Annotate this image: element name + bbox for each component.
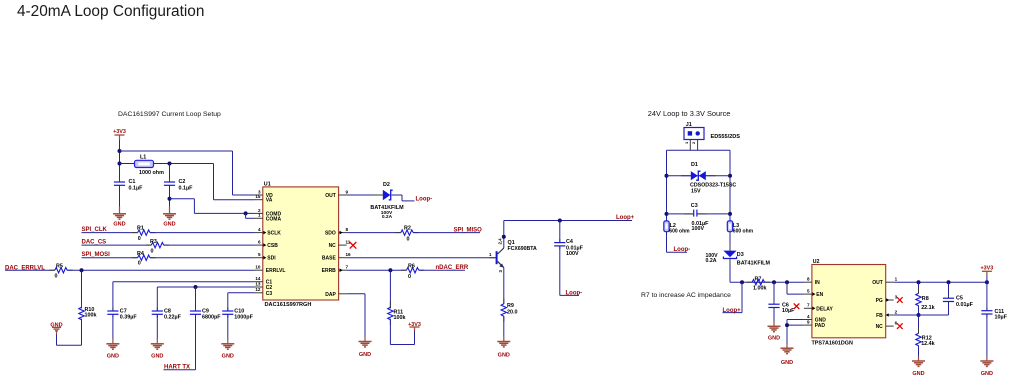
svg-text:22.1k: 22.1k bbox=[921, 305, 935, 311]
svg-text:C3: C3 bbox=[691, 203, 698, 209]
svg-text:BASE: BASE bbox=[322, 256, 337, 262]
svg-text:GND: GND bbox=[781, 360, 793, 366]
svg-text:12: 12 bbox=[255, 287, 261, 292]
svg-text:CSB: CSB bbox=[267, 243, 278, 249]
svg-text:0.2A: 0.2A bbox=[706, 258, 717, 264]
svg-text:C7: C7 bbox=[120, 308, 127, 314]
svg-text:R1: R1 bbox=[137, 226, 144, 232]
svg-text:VA: VA bbox=[266, 198, 273, 204]
svg-text:24V Loop to 3.3V Source: 24V Loop to 3.3V Source bbox=[648, 109, 731, 118]
svg-text:SDO: SDO bbox=[325, 231, 336, 237]
svg-text:14: 14 bbox=[255, 276, 261, 281]
svg-text:0.1µF: 0.1µF bbox=[179, 186, 194, 192]
svg-text:Loop+: Loop+ bbox=[616, 215, 635, 221]
svg-text:6: 6 bbox=[258, 240, 261, 245]
svg-text:+3V3: +3V3 bbox=[113, 129, 126, 135]
svg-text:L1: L1 bbox=[140, 155, 146, 161]
svg-text:R2: R2 bbox=[404, 226, 411, 232]
svg-text:600 ohm: 600 ohm bbox=[733, 228, 754, 234]
svg-text:GND: GND bbox=[912, 371, 924, 377]
svg-text:6800pF: 6800pF bbox=[202, 315, 221, 321]
svg-text:C2: C2 bbox=[179, 179, 186, 185]
svg-text:D3: D3 bbox=[737, 252, 744, 258]
svg-text:FB: FB bbox=[876, 313, 883, 319]
svg-text:0.2A: 0.2A bbox=[382, 214, 393, 220]
svg-text:0.01µF: 0.01µF bbox=[956, 302, 974, 308]
svg-text:NC: NC bbox=[329, 243, 337, 249]
svg-text:GND: GND bbox=[163, 221, 175, 227]
svg-text:100k: 100k bbox=[85, 313, 97, 319]
svg-text:1.00k: 1.00k bbox=[753, 286, 767, 292]
svg-text:100V: 100V bbox=[566, 251, 579, 257]
svg-text:GND: GND bbox=[107, 354, 119, 360]
svg-text:OUT: OUT bbox=[872, 280, 883, 286]
svg-text:U1: U1 bbox=[264, 182, 271, 188]
svg-text:ERRB: ERRB bbox=[322, 268, 337, 274]
svg-text:DAC161S997 Current Loop Setup: DAC161S997 Current Loop Setup bbox=[118, 111, 221, 118]
svg-text:10µF: 10µF bbox=[995, 314, 1008, 320]
svg-text:IN: IN bbox=[815, 280, 820, 286]
svg-text:FCX690BTA: FCX690BTA bbox=[508, 246, 538, 252]
svg-text:100V: 100V bbox=[692, 226, 705, 232]
svg-text:OUT: OUT bbox=[325, 193, 336, 199]
svg-text:ED555/2DS: ED555/2DS bbox=[711, 134, 741, 140]
svg-text:4-20mA Loop Configuration: 4-20mA Loop Configuration bbox=[17, 3, 204, 20]
svg-text:R9: R9 bbox=[507, 303, 514, 309]
svg-text:C9: C9 bbox=[202, 308, 209, 314]
svg-text:Loop+: Loop+ bbox=[723, 308, 742, 314]
svg-text:9: 9 bbox=[346, 189, 349, 194]
svg-text:8: 8 bbox=[807, 277, 810, 282]
svg-text:15V: 15V bbox=[691, 189, 701, 195]
svg-text:GND: GND bbox=[151, 354, 163, 360]
svg-text:5: 5 bbox=[807, 289, 810, 294]
svg-text:10µF: 10µF bbox=[782, 308, 795, 314]
svg-text:1000pF: 1000pF bbox=[234, 315, 253, 321]
svg-text:15: 15 bbox=[255, 194, 261, 199]
svg-text:R5: R5 bbox=[56, 263, 63, 269]
svg-text:EN: EN bbox=[816, 292, 823, 298]
svg-text:J1: J1 bbox=[686, 122, 692, 128]
svg-text:Loop-: Loop- bbox=[674, 247, 691, 253]
svg-text:8: 8 bbox=[346, 227, 349, 232]
svg-text:Loop-: Loop- bbox=[566, 291, 583, 297]
svg-text:12.4k: 12.4k bbox=[921, 341, 935, 347]
svg-text:GND: GND bbox=[113, 221, 125, 227]
svg-text:PG: PG bbox=[876, 298, 883, 304]
svg-text:R7 to increase AC impedance: R7 to increase AC impedance bbox=[641, 292, 731, 299]
svg-text:nDAC_ERR: nDAC_ERR bbox=[436, 265, 469, 271]
svg-text:0: 0 bbox=[407, 236, 410, 242]
svg-text:DAP: DAP bbox=[325, 292, 336, 298]
svg-text:Loop-: Loop- bbox=[416, 196, 433, 202]
svg-text:C1: C1 bbox=[129, 179, 136, 185]
svg-text:20.0: 20.0 bbox=[507, 309, 518, 315]
svg-text:0: 0 bbox=[408, 274, 411, 280]
svg-text:13: 13 bbox=[255, 281, 261, 286]
svg-text:R8: R8 bbox=[922, 296, 929, 302]
svg-text:C10: C10 bbox=[234, 308, 244, 314]
svg-text:NC: NC bbox=[876, 324, 884, 330]
svg-text:0.39µF: 0.39µF bbox=[120, 315, 138, 321]
svg-text:9: 9 bbox=[807, 320, 810, 325]
svg-text:1: 1 bbox=[895, 277, 898, 282]
svg-text:CDSOD323-T15SC: CDSOD323-T15SC bbox=[690, 183, 736, 189]
svg-text:1: 1 bbox=[258, 213, 261, 218]
svg-text:7: 7 bbox=[807, 303, 810, 308]
svg-text:SPI_MISO: SPI_MISO bbox=[454, 227, 483, 233]
svg-text:DAC161S997RGH: DAC161S997RGH bbox=[265, 302, 312, 308]
svg-text:SCLK: SCLK bbox=[267, 231, 281, 237]
svg-text:2: 2 bbox=[895, 309, 898, 314]
svg-text:0: 0 bbox=[138, 236, 141, 242]
svg-text:GND: GND bbox=[981, 371, 993, 377]
svg-text:10: 10 bbox=[255, 265, 261, 270]
svg-text:0.1µF: 0.1µF bbox=[129, 186, 144, 192]
svg-text:6: 6 bbox=[895, 321, 898, 326]
svg-text:GND: GND bbox=[498, 353, 510, 359]
svg-text:TPS7A1601DGN: TPS7A1601DGN bbox=[812, 341, 853, 347]
svg-text:C8: C8 bbox=[164, 308, 171, 314]
svg-text:HART TX: HART TX bbox=[164, 365, 190, 371]
svg-text:100k: 100k bbox=[394, 315, 406, 321]
svg-text:R7: R7 bbox=[755, 276, 762, 282]
svg-text:R3: R3 bbox=[150, 239, 157, 245]
svg-text:1000 ohm: 1000 ohm bbox=[139, 170, 164, 176]
svg-text:C4: C4 bbox=[566, 239, 573, 245]
svg-text:7: 7 bbox=[346, 265, 349, 270]
svg-text:SDI: SDI bbox=[267, 256, 276, 262]
svg-text:GND: GND bbox=[222, 354, 234, 360]
svg-text:R6: R6 bbox=[408, 263, 415, 269]
svg-text:U2: U2 bbox=[813, 259, 820, 265]
svg-text:16: 16 bbox=[346, 252, 352, 257]
svg-text:DELAY: DELAY bbox=[816, 306, 833, 312]
svg-text:C5: C5 bbox=[956, 295, 963, 301]
svg-text:ERRLVL: ERRLVL bbox=[266, 268, 286, 274]
svg-text:2,4: 2,4 bbox=[498, 238, 503, 245]
svg-text:0: 0 bbox=[55, 274, 58, 280]
svg-text:R4: R4 bbox=[137, 251, 144, 257]
svg-text:4: 4 bbox=[807, 314, 810, 319]
svg-text:C3: C3 bbox=[266, 291, 273, 297]
svg-text:0: 0 bbox=[138, 260, 141, 266]
svg-text:0: 0 bbox=[151, 248, 154, 254]
svg-text:4: 4 bbox=[258, 227, 261, 232]
svg-text:3: 3 bbox=[895, 294, 898, 299]
svg-text:GND: GND bbox=[359, 352, 371, 358]
svg-text:D2: D2 bbox=[383, 182, 390, 188]
svg-text:PAD: PAD bbox=[815, 323, 826, 329]
svg-text:600 ohm: 600 ohm bbox=[669, 228, 690, 234]
svg-text:0.22µF: 0.22µF bbox=[164, 315, 182, 321]
svg-text:GND: GND bbox=[768, 336, 780, 342]
svg-text:D1: D1 bbox=[691, 162, 698, 168]
svg-text:5: 5 bbox=[258, 252, 261, 257]
svg-text:COMA: COMA bbox=[266, 216, 282, 222]
svg-text:BAT41KFILM: BAT41KFILM bbox=[737, 260, 771, 266]
